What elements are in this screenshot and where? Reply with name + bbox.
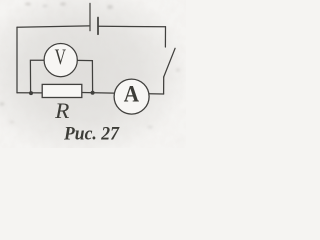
paper grain (0, 0, 186, 148)
scan noise specks (0, 2, 180, 128)
junction node left (29, 91, 33, 95)
wire: switch upper contact vertical (164, 27, 166, 47)
svg-text:Рис. 27: Рис. 27 (63, 123, 120, 143)
ammeter U2 circle (114, 79, 149, 114)
wire: top right horizontal (99, 25, 166, 28)
wire: voltmeter right lead (77, 60, 92, 92)
wire: voltmeter left lead (30, 60, 44, 93)
switch S1 blade (164, 48, 175, 77)
wire: resistor to ammeter (82, 92, 114, 95)
voltmeter U1 circle (44, 44, 77, 77)
wire: switch lower vertical (163, 77, 165, 94)
paper background (0, 0, 186, 148)
wire: left vertical (16, 27, 18, 93)
battery B1 long plate (89, 3, 91, 30)
page shadow over figure (0, 0, 190, 158)
svg-text:V: V (55, 46, 66, 70)
wire: top left horizontal (17, 26, 89, 27)
svg-text:R: R (54, 98, 69, 122)
wire: ammeter right lead (149, 93, 163, 95)
svg-text:A: A (124, 80, 139, 106)
battery B1 short plate (97, 18, 99, 35)
resistor R rectangle (42, 84, 82, 97)
junction node right (91, 91, 95, 95)
wire: bottom left horizontal (17, 92, 42, 94)
